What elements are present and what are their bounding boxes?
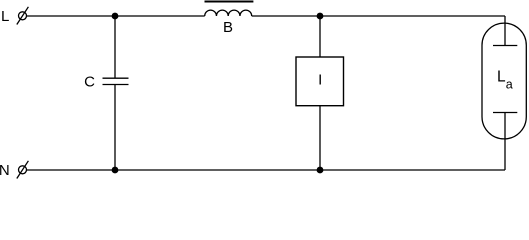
wire lamp top lead <box>504 16 506 46</box>
terminal L slash <box>17 7 29 25</box>
svg-text:a: a <box>506 78 513 92</box>
svg-text:N: N <box>0 162 10 179</box>
svg-text:C: C <box>84 73 95 90</box>
terminal N slash <box>17 161 29 179</box>
junction dot top I node <box>317 13 324 20</box>
lamp La tube <box>482 23 526 139</box>
lamp top electrode <box>493 45 517 47</box>
wire bottom rail <box>27 169 506 171</box>
wire I-box branch top <box>319 16 321 57</box>
wire capacitor branch top <box>114 16 116 78</box>
wire capacitor branch bottom <box>114 85 116 171</box>
svg-text:I: I <box>318 72 322 89</box>
terminal N <box>19 166 27 174</box>
inductor B core bar <box>205 1 254 3</box>
terminal L <box>19 12 27 20</box>
lamp bottom electrode <box>493 112 517 114</box>
inductor B coil <box>205 10 252 16</box>
svg-text:L: L <box>1 8 9 25</box>
wire lamp bottom lead <box>504 113 506 171</box>
junction dot bottom I node <box>317 167 324 174</box>
junction dot bottom capacitor node <box>112 167 119 174</box>
ignitor box I <box>296 57 344 106</box>
wire top rail right <box>252 15 505 17</box>
svg-text:B: B <box>223 19 233 36</box>
junction dot top capacitor node <box>112 13 119 20</box>
wire I-box branch bottom <box>319 106 321 170</box>
capacitor C plates <box>103 77 129 79</box>
svg-text:L: L <box>497 68 506 85</box>
wire top rail left <box>27 15 205 17</box>
